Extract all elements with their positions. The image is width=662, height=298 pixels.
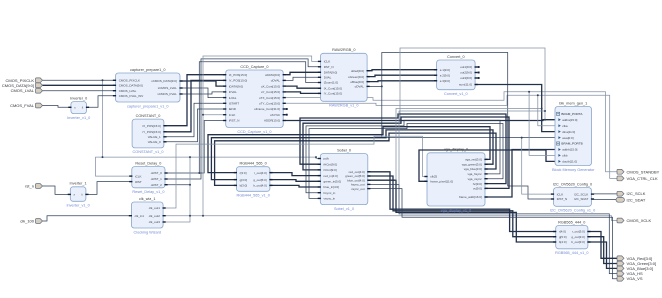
wire clk_100 to clk_wiz (43, 216, 132, 221)
wire iY_POS bus (164, 80, 226, 131)
svg-text:iX_POS[15:0]: iX_POS[15:0] (143, 124, 161, 128)
wire hsync_out to VGA_HS (368, 184, 617, 273)
block clk_wiz_1 (129, 197, 166, 235)
block RGB565_444_0 (553, 220, 590, 255)
svg-text:g[5:0]: g[5:0] (559, 235, 567, 239)
svg-text:iX_POS[15:0]: iX_POS[15:0] (229, 73, 247, 77)
wire clk rail horizontal (96, 157, 321, 176)
svg-text:Block Memory Generator: Block Memory Generator (552, 168, 595, 172)
junction dot (189, 184, 191, 186)
wire frame_addr to addrb (485, 150, 555, 198)
svg-text:wea[0:0]: wea[0:0] (562, 136, 574, 140)
svg-text:clkb: clkb (562, 154, 568, 158)
svg-text:iY_Cont[15:0]: iY_Cont[15:0] (324, 92, 342, 96)
svg-text:blue_in[4:0]: blue_in[4:0] (324, 185, 340, 189)
svg-text:sum[11:0]: sum[11:0] (459, 83, 472, 87)
wire oX_Cont to iX_Cont (286, 86, 321, 88)
svg-text:iEND: iEND (229, 107, 237, 111)
svg-text:green_in[5:0]: green_in[5:0] (324, 180, 342, 184)
svg-text:RAW2RGB_0: RAW2RGB_0 (332, 48, 355, 52)
wire CMOS_PIXCLK drop to clk rail (102, 80, 104, 157)
svg-text:b[4:0]: b[4:0] (559, 240, 567, 244)
svg-text:iFVAL: iFVAL (229, 90, 237, 94)
external port VGA_Blue[3:0] (617, 266, 653, 271)
junction dot (315, 156, 317, 158)
svg-text:r_out[3:0]: r_out[3:0] (572, 230, 585, 234)
svg-text:vsync_out: vsync_out (351, 187, 365, 191)
block blk_mem_gen_1 (552, 101, 595, 172)
svg-text:RGB444_565_0: RGB444_565_0 (240, 162, 267, 166)
svg-text:vsync_in: vsync_in (324, 197, 336, 201)
svg-text:vga_vsync: vga_vsync (468, 177, 483, 181)
svg-text:RST_N: RST_N (324, 65, 334, 69)
external port I2C_SCLK (617, 191, 646, 196)
svg-text:out1[9:0]: out1[9:0] (460, 65, 472, 69)
block capturer_prepare1_0 (113, 68, 183, 109)
block vga_display_0 (424, 148, 487, 213)
svg-text:doutb[11:0]: doutb[11:0] (562, 160, 577, 164)
junction dot (102, 156, 104, 158)
svg-text:a 1[9:0]: a 1[9:0] (440, 68, 450, 72)
svg-text:clk_100: clk_100 (20, 218, 35, 223)
svg-text:vga_hsync: vga_hsync (467, 172, 482, 176)
junction dot (202, 114, 204, 116)
svg-text:vga_red[3:0]: vga_red[3:0] (465, 158, 482, 162)
svg-text:oDATA[9:0]: oDATA[9:0] (265, 73, 280, 77)
wire clk_out3 stub (163, 216, 190, 222)
svg-text:iY_POS[15:0]: iY_POS[15:0] (143, 130, 161, 134)
svg-text:hsync_in: hsync_in (324, 191, 336, 195)
external port CMOS_LVAL (11, 88, 43, 93)
svg-text:iRST_N: iRST_N (229, 119, 240, 123)
svg-text:hc[9:0]: hc[9:0] (473, 182, 482, 186)
junction dot (102, 79, 104, 81)
block Inverter_1 (66, 182, 89, 208)
svg-text:DVAL: DVAL (324, 76, 332, 80)
svg-text:I2C_SCLK: I2C_SCLK (627, 191, 646, 196)
wire oBlue to a3 (367, 80, 437, 83)
svg-text:I2C_OV5620_Config_v1_0: I2C_OV5620_Config_v1_0 (550, 209, 595, 213)
wire sum to dina (475, 85, 555, 132)
svg-text:iVCnt[9:0]: iVCnt[9:0] (324, 168, 337, 172)
svg-text:ADDR[15:0]: ADDR[15:0] (264, 119, 280, 123)
block CONSTANT_0 (132, 114, 166, 154)
svg-text:Inverter_0: Inverter_0 (70, 96, 87, 100)
svg-text:vga_display_0: vga_display_0 (444, 148, 468, 152)
wire oRST_0 to CCD iRST_N (165, 121, 226, 174)
svg-text:iRST_N: iRST_N (557, 197, 568, 201)
svg-text:BRAM_PORTB: BRAM_PORTB (561, 142, 582, 146)
svg-text:CMOS_PIXCLK: CMOS_PIXCLK (119, 79, 140, 83)
svg-text:addrb[15:0]: addrb[15:0] (562, 148, 577, 152)
svg-text:oDVAL: oDVAL (271, 79, 281, 83)
svg-text:oSYNC: oSYNC (270, 113, 281, 117)
wire CMOS_LVAL net (43, 90, 116, 92)
junction dot (541, 108, 543, 110)
svg-text:vga_display_v1_0: vga_display_v1_0 (441, 208, 471, 212)
wire addra loop top (400, 48, 545, 121)
svg-text:iLVAL: iLVAL (229, 96, 237, 100)
svg-text:I2C_SCLK: I2C_SCLK (574, 192, 588, 196)
wire clkb feed (529, 92, 555, 156)
junction dot (399, 120, 401, 122)
svg-text:oRST_0: oRST_0 (151, 171, 162, 175)
wire bundle riser a (396, 109, 542, 181)
junction dot (189, 215, 191, 217)
wire inverter0 out to CMOS_FVAL_INV (87, 96, 116, 108)
svg-text:dina[11:0]: dina[11:0] (562, 130, 575, 134)
svg-text:CCD_Capture_0: CCD_Capture_0 (240, 65, 268, 69)
wire iZoom feed riser (199, 62, 320, 173)
svg-text:RGB565_444_v1_0: RGB565_444_v1_0 (555, 251, 588, 255)
wire I2C_SCLK out (592, 193, 618, 195)
svg-text:vga_blue[3:0]: vga_blue[3:0] (464, 167, 482, 171)
svg-text:iZoom[1:0]: iZoom[1:0] (324, 81, 338, 85)
wire vsync_out to VGA_VS (368, 189, 617, 279)
wire oGreen to a2 (367, 75, 437, 76)
svg-text:clk_out2: clk_out2 (149, 214, 161, 218)
wire CMOS_FVAL to inverter (43, 106, 71, 108)
svg-text:oDVAL: oDVAL (355, 85, 365, 89)
svg-text:iCLK: iCLK (557, 192, 564, 196)
svg-text:clka: clka (562, 124, 568, 128)
svg-text:CMOS_DATA[9:0]: CMOS_DATA[9:0] (2, 83, 34, 88)
junction dot (202, 215, 204, 217)
wire clk_out1 to clk25 (163, 136, 427, 208)
wire oDVAL to DVAL (286, 77, 321, 80)
external port VGA_Green[3:0] (617, 261, 656, 266)
svg-text:RGB444_565_v1_0: RGB444_565_v1_0 (236, 194, 269, 198)
wire I2C iCLK feed (522, 138, 554, 195)
junction dot (544, 110, 546, 112)
wire VALUE_0 to iEND (164, 109, 226, 142)
svg-text:pclk: pclk (324, 157, 330, 161)
svg-text:rst_n: rst_n (25, 183, 34, 188)
svg-text:oTY_Cont[15:0]: oTY_Cont[15:0] (259, 102, 280, 106)
wire rst_n to inverter1 (43, 186, 71, 194)
junction dot (381, 85, 383, 87)
svg-text:xCMOS_FVAL: xCMOS_FVAL (157, 92, 177, 96)
wire RGB565 b_out to VGA_Blue (588, 242, 617, 268)
svg-text:DATA[9:0]: DATA[9:0] (324, 71, 338, 75)
external port CMOS_FVAL (10, 103, 42, 108)
wire oDVAL branch to wea (382, 86, 555, 137)
wire CMOS_PIXCLK net (43, 79, 116, 81)
wire oRed to a1 (367, 70, 437, 71)
svg-text:CMOS_FVAL: CMOS_FVAL (10, 103, 35, 108)
external port rst_n (25, 183, 42, 188)
wire red_out to RGB565 r (368, 172, 556, 232)
wire oRST_2 stub to rail (165, 184, 190, 186)
svg-text:CMOS_XCLK: CMOS_XCLK (627, 218, 652, 223)
svg-text:CCD_Capture_v1_0: CCD_Capture_v1_0 (237, 130, 271, 134)
wire vc loop to iVCnt (303, 117, 509, 188)
svg-text:out3[9:0]: out3[9:0] (460, 76, 472, 80)
external port clk_100 (20, 218, 42, 223)
wire clk branch up x203 (203, 56, 321, 216)
svg-text:Inverter_v1_0: Inverter_v1_0 (67, 116, 90, 120)
svg-text:Clocking Wizard: Clocking Wizard (134, 230, 161, 234)
block RAW2RGB_0 (318, 48, 370, 108)
wire vga_blue loop to RGB444 b (215, 133, 496, 185)
svg-text:r_out[4:0]: r_out[4:0] (254, 171, 267, 175)
svg-text:iY_POS[15:0]: iY_POS[15:0] (229, 79, 247, 83)
svg-text:iHCnt[9:0]: iHCnt[9:0] (324, 162, 338, 166)
wire clka feed (538, 95, 555, 126)
junction dot (189, 156, 191, 158)
junction dot (544, 119, 546, 121)
junction dot (198, 172, 200, 174)
wire CMOS_DATA bus (43, 84, 116, 86)
svg-text:iCLK: iCLK (324, 60, 331, 64)
svg-text:blk_mem_gen_1: blk_mem_gen_1 (559, 101, 587, 105)
wire oRST_1 to RAW2RGB RST_N (165, 59, 321, 179)
external port CMOS_STANDBY (617, 169, 660, 174)
svg-text:CONSTANT_v1_0: CONSTANT_v1_0 (133, 150, 164, 154)
svg-text:CONSTANT_0: CONSTANT_0 (136, 114, 161, 118)
block RGB444_565_0 (234, 162, 273, 198)
svg-text:Convert_v1_0: Convert_v1_0 (444, 92, 468, 96)
block I2C_OV5620_Config_0 (550, 182, 595, 212)
wire xCMOS_DATA to iDATA (180, 81, 226, 86)
svg-text:oRST_1: oRST_1 (151, 177, 162, 181)
svg-text:Sobel_0: Sobel_0 (337, 148, 351, 152)
block Sobel_0 (318, 148, 371, 211)
svg-text:I2C_OV5620_Config_0: I2C_OV5620_Config_0 (553, 182, 592, 186)
external port VGA_VS (617, 276, 643, 281)
svg-text:clk_out3: clk_out3 (149, 220, 161, 224)
svg-text:CMOS_LVAL: CMOS_LVAL (11, 88, 35, 93)
svg-text:vga_green[3:0]: vga_green[3:0] (462, 162, 482, 166)
wire vga_red loop to RGB444 r (208, 127, 490, 173)
block Convert_0 (434, 55, 480, 96)
junction dot (521, 137, 523, 139)
external port CMOS_DATA[9:0] (2, 83, 43, 88)
svg-text:oBlue[9:0]: oBlue[9:0] (350, 80, 364, 84)
svg-text:capturer_prepare1_0: capturer_prepare1_0 (130, 68, 165, 72)
svg-text:frame_addr[16:0]: frame_addr[16:0] (459, 195, 482, 199)
external port I2C_SDAT (616, 197, 646, 202)
svg-text:g[3:0]: g[3:0] (240, 178, 248, 182)
svg-text:VALUE_1: VALUE_1 (148, 135, 161, 139)
svg-text:VGA_VS: VGA_VS (627, 276, 643, 281)
svg-text:frame_pixel[11:0]: frame_pixel[11:0] (430, 180, 453, 184)
wire vga_green loop to RGB444 g (211, 130, 493, 180)
wire RGB565 g_out to VGA_Green (588, 237, 617, 264)
svg-text:iCLK: iCLK (135, 174, 142, 178)
svg-text:oRST_2: oRST_2 (151, 183, 162, 187)
wire RGB444 g_out to green_in (270, 180, 320, 182)
svg-text:clk_in1: clk_in1 (135, 214, 145, 218)
wire oY_Cont to iY_Cont (286, 92, 321, 94)
svg-text:iX_Cont[15:0]: iX_Cont[15:0] (324, 86, 342, 90)
svg-text:RAW2RGB_v1_0: RAW2RGB_v1_0 (329, 104, 358, 108)
external port CMOS_XCLK (617, 218, 652, 223)
svg-text:clk_wiz_1: clk_wiz_1 (139, 197, 155, 201)
svg-text:CMOS_STANDBY: CMOS_STANDBY (627, 169, 660, 174)
wire clk branch CCD iCLK (203, 114, 226, 116)
wire hc loop to iHCnt (300, 114, 506, 184)
svg-text:CMOS_LVAL: CMOS_LVAL (119, 89, 137, 93)
wire xCMOS_LVAL to iLVAL (180, 88, 226, 98)
svg-text:Inverter_v1_0: Inverter_v1_0 (66, 204, 89, 208)
svg-text:xCMOS_DATA[9:0]: xCMOS_DATA[9:0] (151, 79, 177, 83)
external port VGA_Red[3:0] (617, 256, 652, 261)
svg-text:iDATA[9:0]: iDATA[9:0] (229, 84, 243, 88)
svg-text:Inverter_1: Inverter_1 (70, 182, 87, 186)
svg-text:b[3:0]: b[3:0] (240, 184, 248, 188)
wire vga_vsync loop to vsync_in (309, 124, 503, 199)
svg-text:CMOS_DATA[9:0]: CMOS_DATA[9:0] (119, 84, 143, 88)
svg-text:red_in[4:0]: red_in[4:0] (324, 174, 338, 178)
svg-text:iRST: iRST (135, 180, 142, 184)
wire ADDR to addra (286, 119, 556, 122)
wire bundle riser b (399, 111, 545, 184)
wire oTY_Cont to VGA_CTRL_CLK (286, 95, 618, 178)
svg-text:vc[9:0]: vc[9:0] (473, 187, 482, 191)
svg-text:oTX_Cont[15:0]: oTX_Cont[15:0] (259, 96, 280, 100)
svg-text:g_out[3:0]: g_out[3:0] (571, 235, 585, 239)
wire clk_out2 long rail (163, 216, 617, 221)
svg-text:capturer_prepare1_v1_0: capturer_prepare1_v1_0 (127, 104, 169, 108)
wire green_out to RGB565 g (368, 176, 556, 237)
svg-text:Reset_Delay_0: Reset_Delay_0 (135, 161, 161, 165)
external port VGA_HS (617, 271, 643, 276)
svg-text:oFrame_Cont[31:0]: oFrame_Cont[31:0] (254, 107, 280, 111)
block Inverter_0 (67, 96, 90, 120)
svg-text:addra[15:0]: addra[15:0] (562, 118, 577, 122)
svg-text:oX_Cont[15:0]: oX_Cont[15:0] (261, 84, 280, 88)
block Reset_Delay_0 (129, 161, 167, 194)
svg-text:VGA_CTRL_CLK: VGA_CTRL_CLK (627, 176, 658, 181)
junction dot (528, 91, 530, 93)
wire RGB444 b_out to blue_in (270, 185, 320, 187)
svg-text:g_out[5:0]: g_out[5:0] (253, 178, 267, 182)
svg-text:a 2[9:0]: a 2[9:0] (440, 73, 450, 77)
svg-text:oRed[9:0]: oRed[9:0] (351, 69, 364, 73)
svg-text:b_out[4:0]: b_out[4:0] (253, 184, 267, 188)
svg-text:I2C_SDAT: I2C_SDAT (574, 197, 588, 201)
junction dot (537, 94, 539, 96)
external port VGA_CTRL_CLK (617, 176, 658, 181)
wire inverter1 out to iRST (86, 182, 132, 195)
svg-text:iSTART: iSTART (229, 102, 239, 106)
svg-text:Convert_0: Convert_0 (447, 55, 465, 59)
wire RGB444 r_out to red_in (270, 173, 320, 176)
svg-text:out2[9:0]: out2[9:0] (460, 71, 472, 75)
svg-text:VALUE_0: VALUE_0 (148, 140, 161, 144)
svg-text:oY_Cont[15:0]: oY_Cont[15:0] (261, 90, 280, 94)
svg-text:clk25: clk25 (430, 175, 437, 179)
wire vga_hsync loop to hsync_in (306, 120, 500, 192)
svg-text:r[3:0]: r[3:0] (240, 171, 247, 175)
svg-text:BRAM_PORTA: BRAM_PORTA (561, 112, 583, 116)
svg-text:xCMOS_LVAL: xCMOS_LVAL (158, 86, 177, 90)
wire I2C_SDAT out (592, 198, 618, 200)
svg-text:RGB565_444_0: RGB565_444_0 (558, 220, 585, 224)
svg-text:r[4:0]: r[4:0] (559, 230, 566, 234)
wire VALUE_1 to iSTART (164, 103, 226, 137)
external port CMOS_PIXCLK (6, 78, 43, 83)
wire blue_out to RGB565 b (368, 180, 556, 242)
wire iX_POS bus (164, 75, 226, 126)
svg-text:Reset_Delay_v1_0: Reset_Delay_v1_0 (132, 190, 164, 194)
wire doutb to frame_pixel (419, 150, 555, 181)
wire oTX_Cont to CMOS_STANDBY (286, 92, 618, 172)
svg-text:CMOS_FVAL_INV: CMOS_FVAL_INV (119, 94, 144, 98)
svg-text:I2C_SDAT: I2C_SDAT (627, 197, 646, 202)
svg-text:b_out[3:0]: b_out[3:0] (571, 240, 585, 244)
svg-text:clk_out1: clk_out1 (149, 206, 161, 210)
svg-text:oGreen[9:0]: oGreen[9:0] (348, 75, 364, 79)
svg-text:Sobel_v1_0: Sobel_v1_0 (334, 207, 354, 211)
svg-text:a 3[9:0]: a 3[9:0] (440, 79, 450, 83)
wire rail vertical x190 (189, 157, 191, 216)
block CCD_Capture_0 (223, 65, 288, 134)
wire oDATA to DATA (286, 72, 321, 74)
wire RGB565 r_out to VGA_Red (588, 232, 617, 259)
wire oDVAL net to loop (367, 53, 553, 200)
svg-text:iCLK: iCLK (229, 113, 236, 117)
wire xCMOS_FVAL to iFVAL (180, 92, 226, 94)
